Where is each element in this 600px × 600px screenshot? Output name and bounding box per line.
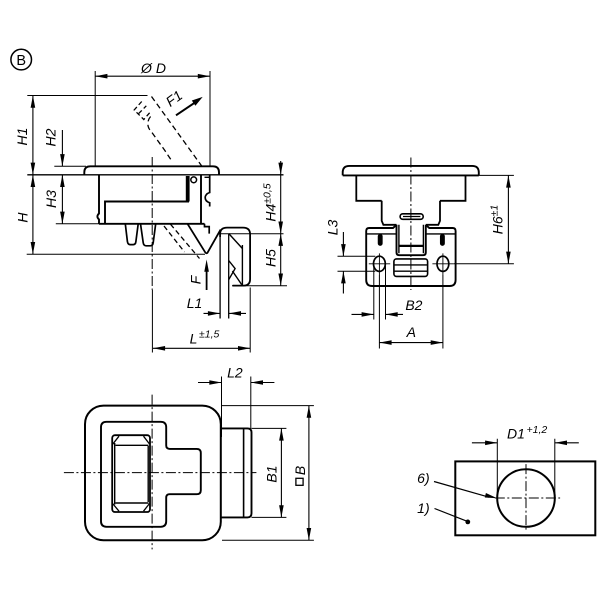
dim H6 line (507, 175, 509, 263)
svg-text:Ø D: Ø D (140, 60, 166, 76)
base inner top line (366, 233, 455, 235)
dim L line (153, 347, 250, 349)
svg-text:B: B (292, 466, 308, 475)
screw hole right crosslines (432, 253, 453, 275)
F force arrow (206, 269, 208, 291)
body left edge (97, 175, 99, 224)
right shelf (205, 176, 211, 178)
plan hook (221, 428, 252, 517)
dim B line (308, 406, 310, 541)
plan outer square (85, 406, 221, 541)
dim OD extension lines (95, 71, 210, 166)
screw hole left crosslines (369, 253, 390, 275)
front cap brim (343, 166, 479, 176)
svg-text:L3: L3 (324, 220, 340, 236)
slot left (378, 235, 382, 246)
dim L2 line (198, 382, 274, 384)
svg-text:L2: L2 (227, 365, 243, 381)
F1 force arrow (176, 103, 194, 115)
dim H3 line (61, 175, 63, 224)
dim H1 extension top (27, 95, 147, 97)
dim B1 extensions (252, 428, 287, 517)
front cap brim bottom (343, 174, 479, 176)
svg-text:6): 6) (417, 470, 429, 486)
plan hook inner line (243, 428, 245, 517)
inner bar (186, 176, 190, 202)
body right wall with bump (205, 175, 210, 207)
svg-text:H2: H2 (43, 128, 59, 146)
svg-text:F: F (187, 274, 203, 284)
centerline front view (410, 158, 412, 291)
pivot pin (191, 177, 197, 183)
phantom handle grip tab (134, 102, 151, 120)
dim H2 line (61, 130, 63, 166)
dim L3 line (342, 232, 344, 294)
leader 1) (435, 509, 468, 522)
pawl (188, 224, 221, 253)
svg-text:B2: B2 (405, 297, 422, 313)
dim H4 line (280, 161, 282, 234)
hole centerline horizontal (495, 497, 560, 499)
ribbed box lines (394, 265, 428, 271)
svg-text:+1,2: +1,2 (527, 424, 548, 436)
push button pill (400, 214, 423, 220)
svg-text:L1: L1 (187, 295, 203, 311)
front cap skirt (356, 175, 465, 200)
front neck (382, 201, 440, 225)
dim D1 extensions (497, 439, 555, 499)
panel plate (455, 461, 595, 535)
centerline side view (151, 157, 153, 290)
slot right (441, 235, 445, 246)
pill slot line (403, 216, 420, 218)
svg-text:1): 1) (417, 500, 429, 516)
dim L extension right (249, 288, 251, 353)
cap flange (84, 166, 219, 175)
pawl phantom dashed 2 (171, 224, 200, 258)
svg-text:B1: B1 (263, 465, 279, 482)
dim H6 extensions (454, 175, 514, 263)
dim B2 line (352, 313, 404, 315)
svg-text:±1,5: ±1,5 (199, 329, 220, 341)
plan grip corner chamfers (113, 436, 150, 511)
keeper outer (220, 228, 250, 286)
keeper detent bump (229, 261, 235, 280)
dim B1 line (280, 428, 282, 517)
dim H extension bottom (27, 253, 205, 255)
screw hole right (437, 256, 449, 271)
dim D1 line (472, 442, 579, 444)
dim H5 line (280, 234, 282, 286)
body inner right wall (200, 175, 202, 224)
svg-text:B: B (16, 53, 26, 69)
dim H4 boundary extension (218, 233, 283, 235)
keeper inner right wall (241, 245, 243, 285)
dim H line (32, 175, 34, 254)
dim H3 extension (56, 223, 99, 225)
tab 2 (141, 224, 156, 246)
dim L2 extensions (222, 377, 251, 438)
panel line / cap bottom (27, 174, 283, 176)
keeper left wall lines (220, 234, 229, 319)
screw hole left (374, 256, 386, 271)
dim H1 line (32, 96, 34, 175)
svg-text:A: A (406, 324, 416, 340)
plan recess T outline (101, 422, 201, 527)
phantom handle grip tab inner (139, 106, 147, 114)
dim L3 extensions (338, 256, 376, 271)
dim B extensions (222, 406, 314, 541)
svg-text:L: L (190, 331, 198, 347)
tower outer (397, 225, 426, 255)
view marker circled B (11, 49, 32, 70)
ribbed box (394, 259, 428, 277)
keeper spring diagonal (229, 234, 243, 249)
phantom handle right edge (152, 97, 204, 169)
dim A extensions (379, 275, 443, 349)
mounting hole D1 (497, 469, 555, 527)
svg-text:H5: H5 (263, 249, 279, 267)
keeper bottom inner diagonal (232, 271, 241, 285)
dim OD line (95, 75, 210, 77)
tower inner stem (399, 225, 424, 253)
body inner step (105, 202, 189, 224)
plan centerline horizontal (64, 472, 257, 474)
tab 1 (125, 224, 138, 245)
dim H5 extension bottom (232, 285, 287, 287)
svg-text:H3: H3 (43, 190, 59, 208)
plan grip inner lines (115, 443, 149, 505)
stem bottom (399, 245, 424, 247)
body bottom (99, 223, 205, 225)
phantom handle s-curve (148, 117, 173, 163)
leader 6) (434, 482, 489, 498)
dim L1 line (204, 312, 247, 314)
bottom right step (205, 224, 210, 234)
svg-text:D1: D1 (507, 425, 525, 441)
dim H2 extension (54, 165, 86, 167)
dim A line (379, 342, 443, 344)
label square B (296, 478, 303, 485)
hole centerline vertical (525, 464, 527, 532)
base outline (366, 225, 455, 286)
plan grip outer (112, 435, 150, 512)
plan centerline vertical (151, 395, 153, 550)
svg-text:H1: H1 (14, 128, 30, 146)
dim B2 extensions (374, 266, 386, 320)
svg-text:H: H (15, 212, 31, 223)
pawl phantom dashed 1 (164, 226, 185, 252)
